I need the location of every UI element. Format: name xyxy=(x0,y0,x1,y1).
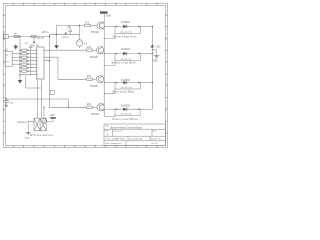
svg-text:P1-2,3: P1-2,3 xyxy=(37,37,45,40)
junction dots s4 xyxy=(116,109,117,110)
bridge left vertical s4 xyxy=(114,109,116,115)
resistor R2 xyxy=(22,49,27,51)
junction dots s1 xyxy=(116,26,117,27)
no-connect flag box xyxy=(50,91,55,95)
wire R9 to Q2 xyxy=(92,49,96,51)
power input connector J1 xyxy=(4,34,8,38)
svg-text:TIP120: TIP120 xyxy=(90,55,99,59)
svg-text:2K2: 2K2 xyxy=(87,103,92,106)
junction dot stage4 row xyxy=(49,60,50,61)
junction dot branch to terminal xyxy=(43,107,44,108)
IC pin wire 4 xyxy=(12,63,20,65)
bus wire right of resistors xyxy=(30,48,32,77)
border row letters xyxy=(3,13,167,135)
svg-text:1N4001: 1N4001 xyxy=(121,20,131,24)
IC pin wire 2 xyxy=(12,56,20,58)
resistor R4 xyxy=(22,56,27,58)
stage 3 flyback group xyxy=(104,83,152,94)
border row ticks right xyxy=(165,27,167,122)
wire +5V rail top xyxy=(8,34,79,36)
svg-text:Common: Common xyxy=(17,121,27,124)
svg-text:2K2: 2K2 xyxy=(85,21,90,24)
wire collector stub s2 xyxy=(104,53,115,55)
terminal marks s4 xyxy=(121,114,131,116)
svg-text:A: A xyxy=(166,13,168,17)
svg-text:Date: 14 MAR 2005: Date: 14 MAR 2005 xyxy=(106,137,126,140)
junction dot rail gnd tap xyxy=(152,49,153,50)
power flag +5V on rail stub xyxy=(69,32,71,35)
svg-text:B: B xyxy=(166,36,168,40)
svg-text:GND: GND xyxy=(153,60,159,63)
title block xyxy=(104,124,166,145)
svg-text:E: E xyxy=(166,107,168,111)
transistor Q3 xyxy=(96,76,103,83)
diode D4 xyxy=(123,108,127,111)
bridge right vertical s4 xyxy=(139,109,141,115)
sheet outer border xyxy=(3,3,167,147)
svg-text:Id: 1/1: Id: 1/1 xyxy=(152,143,159,145)
capacitor C1 stub xyxy=(79,46,81,48)
svg-text:Rev: Rev xyxy=(153,131,157,133)
wire X1 left to gnd xyxy=(28,121,34,132)
power flag +5V arrow xyxy=(69,29,72,32)
junction dot stage1 cap branch xyxy=(79,25,80,26)
capacitor C1 plate xyxy=(77,41,82,43)
return jog s4 xyxy=(104,115,115,116)
stage 2 flyback group xyxy=(104,54,152,66)
junction dot top rail xyxy=(49,36,50,37)
diode line s2 xyxy=(115,53,140,55)
IC pin wire 3 xyxy=(12,60,20,62)
junction dot stage4 base xyxy=(68,107,69,108)
wire stage3 step xyxy=(44,57,87,79)
capacitor C1 body xyxy=(76,40,83,47)
svg-text:Sheet: 1/1: Sheet: 1/1 xyxy=(151,137,162,140)
stage 1 flyback group xyxy=(104,27,152,39)
return jog s2 xyxy=(104,61,115,66)
wire X1 right to power xyxy=(46,119,53,122)
power bar GND top xyxy=(100,11,107,13)
svg-text:Green Lead White: Green Lead White xyxy=(112,117,138,121)
resistor R9 stage2 xyxy=(87,49,93,51)
resistor R8 xyxy=(22,70,27,72)
svg-text:1N4001: 1N4001 xyxy=(121,47,131,51)
svg-text:A: A xyxy=(3,13,5,17)
bridge right vertical s2 xyxy=(139,54,141,61)
ground stub xyxy=(15,44,17,46)
ground symbol mid xyxy=(54,45,59,49)
wire collector stub s1 xyxy=(104,26,115,28)
junction dots s2 xyxy=(116,53,117,54)
IC U1 body xyxy=(5,51,12,66)
capacitor C3 mark on rail xyxy=(64,32,67,34)
terminal line s3 xyxy=(115,88,140,90)
junction dot mid rail xyxy=(56,34,57,35)
svg-text:2K2: 2K2 xyxy=(87,75,92,78)
svg-text:TIP120: TIP120 xyxy=(91,30,100,34)
svg-text:TIP120: TIP120 xyxy=(91,112,100,116)
diode D3 xyxy=(123,81,127,84)
capacitor C2 xyxy=(4,99,9,105)
connector drop wires to terminal block xyxy=(37,79,41,118)
terminal line s1 xyxy=(115,33,140,35)
wire power flag drop xyxy=(33,36,35,41)
wire stage1 base run xyxy=(57,25,85,27)
svg-text:1N4001: 1N4001 xyxy=(121,103,131,107)
power bar X1 xyxy=(50,117,56,119)
ground symbol near IC xyxy=(13,46,18,50)
svg-text:2K2: 2K2 xyxy=(87,46,92,49)
svg-text:Blue Lead Blue: Blue Lead Blue xyxy=(113,90,135,94)
wire stage4 step xyxy=(44,35,87,107)
wire stage2 base run xyxy=(44,49,87,51)
power arrow bus2 top xyxy=(29,44,32,47)
resistor R1 stage1 xyxy=(85,24,91,26)
transistor Q4 xyxy=(97,104,104,111)
wire connector side branch xyxy=(26,75,42,88)
IC pin wire 1 xyxy=(12,53,20,55)
diode line s3 xyxy=(115,82,140,84)
return jog s3 xyxy=(104,89,115,94)
svg-text:C: C xyxy=(165,60,167,64)
wire rail to gnd xyxy=(152,50,156,56)
svg-text:TIP120: TIP120 xyxy=(90,84,99,88)
diode line s1 xyxy=(115,26,140,28)
wire R10 to Q3 xyxy=(92,78,96,80)
svg-text:File: stepper.sch: File: stepper.sch xyxy=(106,142,123,145)
wire R1 to Q1 xyxy=(90,25,97,27)
connector P1 body xyxy=(37,47,44,79)
wire branch down to terminal circle xyxy=(43,107,45,118)
return jog s1 xyxy=(104,34,115,39)
wire to rail s1 xyxy=(140,26,152,28)
svg-text:Yellow Lead Red: Yellow Lead Red xyxy=(112,34,136,38)
svg-text:GND: GND xyxy=(106,14,112,17)
connector pin numbers xyxy=(37,50,39,80)
terminal line s2 xyxy=(115,60,140,62)
+12V power arrow xyxy=(151,44,154,47)
svg-text:+12V: +12V xyxy=(49,114,55,117)
bridge left vertical s2 xyxy=(114,54,116,61)
svg-text:+5V in: +5V in xyxy=(42,31,50,34)
terminal pin circle on block xyxy=(42,119,47,124)
diode line s4 xyxy=(115,108,140,110)
svg-text:1N4001: 1N4001 xyxy=(121,78,131,82)
resistor R6 xyxy=(22,63,27,65)
bridge right vertical s3 xyxy=(139,83,141,89)
resistor R11 stage4 xyxy=(87,106,93,108)
junction dot cap C2 xyxy=(6,98,7,99)
terminal block X1 body xyxy=(34,118,46,131)
svg-text:C3 .1: C3 .1 xyxy=(63,36,69,39)
svg-text:KiCad E.D.A.: KiCad E.D.A. xyxy=(130,137,143,140)
bridge left vertical s1 xyxy=(114,27,116,34)
svg-text:GND: GND xyxy=(25,137,30,139)
svg-text:D: D xyxy=(165,84,167,88)
stage 4 flyback group xyxy=(104,109,152,116)
ground symbol X1 xyxy=(26,133,31,135)
resistor R5 xyxy=(22,60,27,62)
ground symbol rail xyxy=(154,56,160,59)
border row ticks left xyxy=(3,27,5,122)
wire mid rail right segment xyxy=(78,33,80,35)
wire R11 to Q4 xyxy=(92,106,97,108)
junction dots s3 xyxy=(116,82,117,83)
ground marks under C2 xyxy=(4,105,8,106)
border column ticks bottom xyxy=(24,145,147,147)
resistor R3 xyxy=(22,53,27,55)
svg-text:D: D xyxy=(3,84,5,88)
resistor row stubs to connector xyxy=(20,50,37,74)
svg-text:Title:: Title: xyxy=(105,125,110,128)
wire cap branch vertical xyxy=(78,26,80,40)
wire collector stub s3 xyxy=(104,82,115,84)
transistor Q1 xyxy=(97,22,104,29)
transistor Q2 xyxy=(96,47,103,54)
terminal line s4 xyxy=(115,114,140,116)
wire to rail s4 xyxy=(140,108,152,110)
border column numbers xyxy=(13,2,159,148)
wire stage1 feed vertical xyxy=(56,26,58,46)
terminal marks s1 xyxy=(121,32,131,34)
svg-text:Stepper Motor Control Board: Stepper Motor Control Board xyxy=(110,126,143,129)
fuse F1 on top rail xyxy=(31,35,36,37)
sheet inner border xyxy=(5,5,165,145)
resistor R10 stage3 xyxy=(87,78,93,80)
jumper JP1 on top rail xyxy=(14,35,19,37)
junction dots on +12V rail xyxy=(152,26,153,27)
emitter rail vertical xyxy=(103,14,105,117)
ground symbol under bus1 xyxy=(18,80,22,83)
diode D1 xyxy=(123,25,127,28)
svg-text:+5V: +5V xyxy=(24,43,28,45)
diode D2 xyxy=(123,52,127,55)
wire to rail s2 xyxy=(140,53,152,55)
node junction at x20 xyxy=(19,36,21,80)
svg-text:+12V: +12V xyxy=(155,46,161,49)
wire bottom power run xyxy=(6,99,68,107)
bridge right vertical s1 xyxy=(139,27,141,34)
resistor array R2-R8 left bus junction dots xyxy=(19,36,20,76)
+12V rail vertical xyxy=(151,27,153,110)
border column ticks top xyxy=(24,3,147,5)
svg-text:Document: Document xyxy=(114,130,124,133)
svg-text:E: E xyxy=(3,107,5,111)
svg-text:+5V: +5V xyxy=(67,26,72,29)
svg-text:MTR use with box: MTR use with box xyxy=(30,134,54,137)
bridge left vertical s3 xyxy=(114,83,116,89)
resistor R7 xyxy=(22,67,27,69)
svg-text:Brown Lead Blue: Brown Lead Blue xyxy=(112,60,137,64)
terminal marks s2 xyxy=(121,59,131,61)
terminal marks s3 xyxy=(121,87,131,89)
power flag +5V arrow xyxy=(33,42,35,44)
wire collector stub s4 xyxy=(104,108,115,110)
diode marks per row xyxy=(27,49,29,72)
wire to rail s3 xyxy=(140,82,152,84)
